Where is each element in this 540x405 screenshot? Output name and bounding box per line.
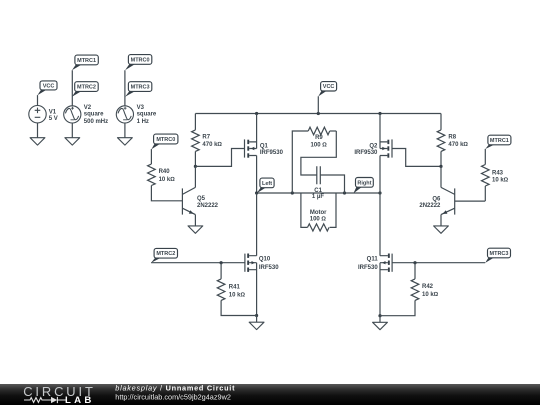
svg-text:2N2222: 2N2222 (419, 203, 441, 209)
svg-text:IRF530: IRF530 (358, 265, 378, 271)
svg-text:LAB: LAB (65, 395, 95, 405)
svg-text:R7: R7 (202, 135, 210, 141)
resistor R41 (217, 263, 256, 316)
flag Left (257, 178, 274, 193)
voltage source V1 (29, 95, 58, 138)
flag MTRC3 (Q11 gate) (485, 248, 510, 263)
svg-text:IRF9530: IRF9530 (354, 150, 378, 156)
svg-text:Q6: Q6 (432, 196, 441, 202)
svg-text:MTRC1: MTRC1 (77, 58, 96, 64)
svg-text:http://circuitlab.com/c59jb2g4: http://circuitlab.com/c59jb2g4az9w2 (115, 393, 231, 402)
svg-text:Q1: Q1 (260, 144, 269, 150)
mosfet Q10 IRF530 (245, 193, 279, 316)
node R7/Q5/gate junction (194, 165, 197, 168)
transistor Q6 2N2222 (419, 166, 485, 226)
ground (V3) (118, 138, 133, 145)
node rail junctions (255, 112, 258, 115)
voltage source V3 (116, 70, 157, 138)
svg-text:MTRC0: MTRC0 (156, 137, 175, 143)
svg-text:1 µF: 1 µF (312, 194, 324, 200)
svg-text:100 Ω: 100 Ω (311, 143, 328, 149)
flag MTRC0 (V3) (125, 55, 152, 71)
ground (V2) (65, 138, 80, 145)
mosfet Q2 IRF9530 (354, 114, 441, 194)
svg-text:V2: V2 (84, 105, 92, 111)
svg-text:500 mHz: 500 mHz (84, 119, 108, 125)
svg-text:470 kΩ: 470 kΩ (202, 142, 222, 148)
svg-text:Left: Left (262, 181, 272, 187)
svg-text:V1: V1 (49, 109, 57, 115)
svg-text:R8: R8 (448, 135, 456, 141)
footer bar (0, 384, 540, 405)
svg-text:MTRC2: MTRC2 (156, 251, 175, 257)
flag MTRC2 (V2) (72, 82, 98, 97)
flag MTRC0 (R40) (151, 134, 178, 149)
motor M (100 ohm) (301, 193, 336, 231)
svg-text:10 kΩ: 10 kΩ (422, 292, 439, 298)
svg-text:square: square (84, 112, 104, 118)
resistor R7 (192, 114, 223, 167)
node R42 gate junction (413, 261, 416, 264)
mosfet Q11 IRF530 (358, 193, 485, 316)
mosfet Q1 IRF9530 (245, 114, 284, 194)
resistor R8 (437, 114, 468, 167)
svg-text:VCC: VCC (323, 84, 335, 90)
flag MTRC2 (gate wire) (151, 248, 177, 262)
svg-text:Q2: Q2 (369, 144, 378, 150)
svg-text:R41: R41 (229, 285, 241, 291)
svg-text:MTRC0: MTRC0 (131, 57, 150, 63)
svg-text:blakesplay / Unnamed Circuit: blakesplay / Unnamed Circuit (115, 383, 235, 392)
voltage source V2 (64, 70, 108, 138)
flag VCC (rail) (318, 82, 336, 114)
ground (Q11) (373, 322, 388, 329)
svg-text:Q10: Q10 (259, 257, 271, 263)
svg-text:Motor: Motor (310, 210, 327, 216)
footer text (115, 383, 235, 401)
node R41/ground junction (255, 314, 258, 317)
resistor R9 (292, 127, 336, 193)
svg-text:R40: R40 (159, 169, 171, 175)
resistor R43 (482, 149, 509, 201)
flag MTRC1 (V2) (72, 55, 98, 70)
flag VCC (V1) (37, 81, 57, 95)
node R42/ground junction (378, 314, 381, 317)
resistor R42 (380, 263, 439, 316)
svg-text:MTRC3: MTRC3 (490, 251, 509, 257)
svg-text:R43: R43 (492, 171, 504, 177)
ground (Q10) (249, 322, 264, 329)
ground (V1) (30, 138, 45, 145)
resistor R40 (148, 149, 183, 201)
svg-text:Q11: Q11 (367, 257, 379, 263)
svg-text:MTRC2: MTRC2 (77, 85, 96, 91)
svg-text:1 Hz: 1 Hz (137, 119, 149, 125)
transistor Q5 2N2222 (182, 166, 218, 226)
flag Right (353, 178, 373, 194)
svg-text:470 kΩ: 470 kΩ (448, 142, 468, 148)
svg-text:R9: R9 (315, 135, 323, 141)
svg-text:V3: V3 (137, 105, 145, 111)
svg-text:2N2222: 2N2222 (197, 203, 219, 209)
svg-text:VCC: VCC (43, 83, 55, 89)
flag MTRC3 (V3) (125, 82, 152, 97)
node R8/Q6/gate junction (439, 165, 442, 168)
wire center node (257, 192, 380, 194)
flag MTRC1 (R43) (485, 135, 511, 149)
svg-text:MTRC1: MTRC1 (490, 138, 509, 144)
ground (Q5) (188, 226, 203, 233)
svg-text:MTRC3: MTRC3 (131, 85, 150, 91)
logo CIRCUIT LAB (23, 384, 96, 405)
svg-text:Q5: Q5 (197, 196, 206, 202)
svg-text:IRF530: IRF530 (259, 265, 279, 271)
svg-text:5 V: 5 V (49, 116, 58, 122)
svg-text:square: square (137, 112, 157, 118)
ground (Q6) (434, 226, 449, 233)
wire VCC rail (195, 113, 441, 115)
svg-text:IRF9530: IRF9530 (260, 150, 284, 156)
svg-text:R42: R42 (422, 284, 434, 290)
svg-text:Right: Right (357, 180, 371, 186)
svg-text:10 kΩ: 10 kΩ (492, 178, 509, 184)
svg-text:100 Ω: 100 Ω (310, 217, 327, 223)
wire gate link Q1 (195, 149, 244, 167)
svg-text:10 kΩ: 10 kΩ (229, 292, 246, 298)
capacitor C1 (301, 131, 345, 200)
wire Q10 gate (151, 262, 245, 264)
svg-text:10 kΩ: 10 kΩ (159, 177, 176, 183)
